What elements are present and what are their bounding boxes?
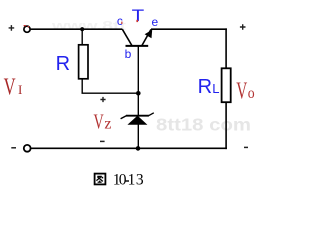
svg-text:8tt18 com: 8tt18 com [156, 115, 251, 135]
svg-text:V: V [236, 78, 247, 105]
svg-text:c: c [117, 14, 123, 28]
zener anode triangle [127, 116, 147, 125]
plus sign above Vz [100, 97, 105, 102]
wire top-left (input + to collector) [31, 28, 123, 30]
zener diode Vz top lead [137, 93, 139, 116]
svg-text:R: R [56, 53, 70, 75]
plus sign top-right [240, 24, 246, 30]
wire bottom rail [31, 147, 227, 149]
junction dot base node [136, 91, 141, 96]
zener right tail [149, 113, 154, 116]
red speck under T [136, 20, 138, 22]
zener bottom lead [137, 124, 139, 148]
junction dot zener bottom [136, 146, 141, 151]
svg-text:I: I [18, 82, 22, 97]
svg-text:e: e [152, 15, 159, 29]
wire right rail lower [225, 102, 227, 149]
resistor R bottom lead [81, 79, 83, 93]
plus sign top-left [9, 25, 15, 31]
svg-text:0: 0 [119, 172, 127, 189]
svg-text:T: T [132, 6, 145, 25]
svg-text:3: 3 [136, 172, 144, 189]
caption glyph 图 [95, 174, 106, 185]
transistor T base bar [126, 45, 149, 47]
load resistor RL body [222, 68, 231, 102]
minus sign bottom-right [244, 146, 248, 148]
red speck near c [121, 22, 122, 24]
zener diode cathode bar [126, 115, 149, 117]
svg-text:1: 1 [128, 172, 136, 189]
svg-text:R: R [198, 76, 212, 98]
terminal circle bottom-left [24, 145, 31, 152]
transistor T emitter arrow [145, 30, 153, 38]
junction dot at R top [80, 27, 84, 31]
svg-text:z: z [104, 115, 111, 132]
resistor R top lead [81, 29, 83, 45]
wire right rail upper [225, 28, 227, 68]
minus sign bottom-left [11, 147, 16, 149]
transistor T base lead [137, 47, 139, 94]
wire base node horizontal [82, 92, 139, 94]
minus sign below Vz [100, 140, 105, 142]
zener left tail [121, 116, 127, 119]
svg-text:V: V [94, 109, 104, 133]
terminal circle top-left [24, 26, 30, 32]
svg-text:o: o [248, 85, 255, 102]
svg-text:L: L [212, 81, 219, 96]
svg-text:www.8tt: www.8tt [51, 18, 127, 33]
resistor R body [79, 45, 88, 79]
transistor T collector line [122, 29, 132, 45]
red specks on top-left terminal [24, 26, 30, 27]
caption text 10-13 [125, 180, 129, 181]
transistor T emitter line [142, 29, 151, 45]
svg-text:b: b [125, 47, 132, 61]
wire top-right (emitter to output +) [151, 28, 227, 30]
svg-text:V: V [4, 75, 16, 101]
